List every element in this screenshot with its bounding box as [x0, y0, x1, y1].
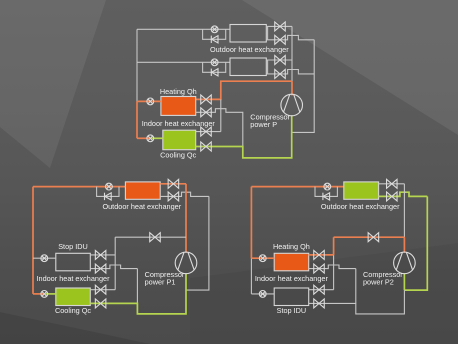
- expansion valve D2-B3: [95, 285, 106, 294]
- wire D1 cooling inlet green part: [152, 137, 163, 139]
- compressor D1-P: [281, 94, 303, 116]
- outdoor heat exchanger D1-HX2: [230, 58, 266, 76]
- solenoid valve D3-S3 (bottom inlet): [259, 291, 266, 298]
- wire D1 left liquid line (orange part): [136, 101, 138, 138]
- background facet top-right: [242, 0, 458, 135]
- expansion valve D2-T1: [168, 179, 179, 188]
- wire D1 HX1 port connector: [267, 26, 269, 39]
- wire D3 bottom inlet: [251, 293, 274, 295]
- expansion valve D1-B2 (heating suction): [201, 108, 212, 117]
- check valve D2-CV1 (outdoor bypass): [105, 193, 112, 200]
- wire D3 mid top port line: [309, 254, 334, 256]
- svg-text:Outdoor heat exchanger: Outdoor heat exchanger: [321, 202, 400, 211]
- wire D3 mid branch line: [334, 236, 405, 238]
- wire D1 outdoor HX2 bypass loop: [203, 62, 226, 72]
- expansion valve D1-B3 (cooling gas): [201, 127, 212, 136]
- check valve D1-CV2 (outdoor HX2 bypass): [211, 69, 218, 76]
- wire D3 far suction bus: [404, 196, 427, 290]
- compressor D3: [394, 252, 416, 274]
- svg-text:power P2: power P2: [363, 278, 394, 287]
- svg-text:Stop IDU: Stop IDU: [58, 242, 88, 251]
- expansion valve D2-B4: [95, 299, 106, 308]
- wire D2 mid inlet: [33, 257, 56, 259]
- svg-text:Heating Qh: Heating Qh: [160, 87, 197, 96]
- wire D1 discharge line (orange): [196, 81, 292, 99]
- expansion valve D1-V1: [275, 22, 286, 31]
- wire D1 outdoor HX1 bypass loop: [203, 29, 226, 39]
- wire D3 bottom return (gray): [309, 290, 405, 314]
- wire D2 mid branch line: [115, 236, 186, 238]
- wire D2 suction return (green): [90, 273, 186, 314]
- expansion valve D3-T2: [387, 192, 398, 201]
- svg-text:Indoor heat exchanger: Indoor heat exchanger: [142, 119, 216, 128]
- solenoid valve D2-S2 (mid inlet): [41, 255, 48, 262]
- wire D3 outdoor HX inlet (orange): [251, 186, 343, 188]
- svg-text:power P1: power P1: [145, 278, 176, 287]
- outdoor heat exchanger D3: [344, 182, 379, 199]
- expansion valve D3-B1: [314, 250, 325, 259]
- indoor heating heat exchanger D3: [274, 253, 309, 270]
- solenoid valve D1-S2 (outdoor HX2 inlet): [211, 59, 218, 66]
- wire D2 bottom inlet green part: [46, 293, 56, 295]
- wire D2 outdoor HX inlet (orange): [33, 186, 125, 188]
- svg-text:Outdoor heat exchanger: Outdoor heat exchanger: [210, 45, 289, 54]
- wire D3 outdoor bypass loop: [315, 187, 337, 197]
- stopped indoor unit D2: [56, 253, 91, 270]
- solenoid valve D3-S2 (mid inlet): [259, 255, 266, 262]
- expansion valve D3-B2: [314, 264, 325, 273]
- wire D2 far suction bus: [186, 196, 209, 290]
- solenoid valve D1-S3 (heating inlet): [147, 98, 154, 105]
- wire D3 branch vertical-1 (orange part): [333, 237, 335, 255]
- wire D1 suction bus: [292, 40, 314, 133]
- wire D1 compressor discharge drop: [291, 81, 293, 95]
- check valve D3-CV1 (outdoor bypass): [323, 193, 330, 200]
- expansion valve D3-M: [368, 233, 379, 242]
- wire D2 branch vertical-1: [114, 237, 116, 290]
- wire D3 branch vertical-1 (gray part): [333, 255, 335, 290]
- wire D1 HX2 bottom port to suction bus (with hop): [266, 70, 314, 74]
- outdoor heat exchanger D1-HX1: [230, 25, 266, 43]
- wire D1 HX1 top port to discharge bus: [266, 25, 292, 27]
- wire D2 discharge bus (orange): [185, 184, 187, 253]
- expansion valve D1-V3: [275, 56, 286, 65]
- wire D2 branch vertical-2: [136, 269, 138, 304]
- wire D1 HX2 top port to discharge bus: [266, 59, 292, 61]
- wire D1 cooling inlet orange part: [137, 137, 149, 139]
- wire D1 heating inlet (orange): [137, 100, 161, 102]
- wire D1 HX2 port connector: [267, 60, 269, 74]
- expansion valve D1-B1 (heating gas): [201, 95, 212, 104]
- expansion valve D2-B2: [95, 264, 106, 273]
- expansion valve D2-T2: [168, 192, 179, 201]
- wire D1 outdoor HX1 inlet line: [137, 28, 230, 30]
- solenoid valve D2-S1 (outdoor inlet): [106, 183, 113, 190]
- svg-text:Heating Qh: Heating Qh: [273, 242, 310, 251]
- wire D2 mid bottom port line (with hop): [90, 265, 137, 269]
- solenoid valve D2-S3 (bottom inlet): [41, 291, 48, 298]
- compressor D2: [175, 252, 197, 274]
- wire D3 left liquid line (orange part): [250, 187, 252, 259]
- svg-text:Outdoor heat exchanger: Outdoor heat exchanger: [102, 202, 181, 211]
- wire D2 left liquid line (orange): [32, 187, 34, 294]
- wire D3 mid bottom port line (with hop): [309, 265, 356, 269]
- wire D3 branch vertical-2: [355, 269, 357, 304]
- wire D1 heating bottom to suction (with hop): [196, 109, 243, 147]
- background facet left: [0, 0, 106, 168]
- wire D1 cooling suction line (green): [196, 115, 292, 158]
- wire D3 left liquid line (gray part): [250, 258, 252, 294]
- wire D1 hot-gas branch vertical: [220, 99, 222, 131]
- svg-text:Indoor heat exchanger: Indoor heat exchanger: [36, 274, 110, 283]
- expansion valve D2-B1: [95, 250, 106, 259]
- expansion valve D1-V4: [275, 69, 286, 78]
- expansion valve D3-B4: [314, 299, 325, 308]
- solenoid valve D1-S4 (cooling inlet): [147, 135, 154, 142]
- wire D1 HX1 bottom port to suction bus (with hop): [266, 35, 314, 39]
- svg-text:Cooling Qc: Cooling Qc: [55, 306, 91, 315]
- wire D2 mid top port line: [90, 254, 115, 256]
- indoor cooling heat exchanger D2: [56, 288, 91, 306]
- outdoor heat exchanger D2: [125, 182, 160, 199]
- wire D3 near bus (gray part): [403, 184, 405, 237]
- wire D2 bottom inlet orange part: [33, 293, 43, 295]
- wire D1 left liquid line (gray part): [136, 29, 138, 101]
- indoor cooling heat exchanger D1 (Cooling Qc): [163, 130, 196, 150]
- wire D3 outdoor top port to near bus: [379, 183, 405, 185]
- solenoid valve D3-S1 (outdoor inlet): [324, 183, 331, 190]
- background facet bottom-left dark: [0, 312, 150, 344]
- background facet bottom-right dark: [190, 243, 458, 344]
- svg-text:Indoor heat exchanger: Indoor heat exchanger: [255, 274, 329, 283]
- expansion valve D2-M: [150, 233, 161, 242]
- expansion valve D1-V2: [275, 35, 286, 44]
- wire D1 discharge bus (gray): [291, 26, 293, 81]
- wire D3 outdoor bottom port to far bus (with hop): [379, 192, 428, 196]
- wire D3 mid inlet (orange): [251, 257, 274, 259]
- wire D2 bottom top port line: [90, 289, 115, 291]
- expansion valve D1-B4 (cooling suction): [201, 142, 212, 151]
- expansion valve D3-B3: [314, 285, 325, 294]
- check valve D1-CV1 (outdoor HX1 bypass): [211, 36, 218, 43]
- wire D2 outdoor bottom port to far bus (with hop): [160, 192, 209, 196]
- wire D2 outdoor top port to near bus: [160, 183, 186, 185]
- svg-text:Stop IDU: Stop IDU: [277, 306, 307, 315]
- wire D3 discharge riser (orange): [403, 237, 405, 253]
- solenoid valve D1-S1 (outdoor HX1 inlet): [211, 26, 218, 33]
- expansion valve D3-T1: [387, 179, 398, 188]
- svg-text:power P: power P: [250, 120, 277, 129]
- stopped indoor unit D3: [274, 288, 309, 306]
- wire D3 bottom top port line: [309, 289, 334, 291]
- indoor heating heat exchanger D1 (Heating Qh): [161, 97, 196, 116]
- wire D3 compressor suction (green): [403, 273, 405, 290]
- wire D1 outdoor HX2 inlet line: [137, 61, 230, 63]
- wire D2 outdoor bypass loop: [97, 187, 119, 197]
- svg-text:Cooling Qc: Cooling Qc: [160, 150, 196, 159]
- wire D1 cooling top port line: [196, 131, 221, 133]
